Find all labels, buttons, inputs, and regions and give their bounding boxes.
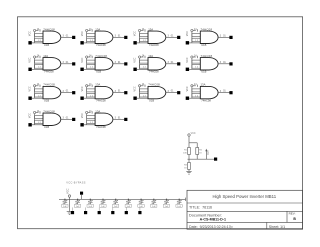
svg-text:74HC08: 74HC08 [149, 43, 159, 47]
svg-text:74HC08: 74HC08 [201, 98, 211, 102]
svg-text:74HC08: 74HC08 [149, 70, 159, 74]
svg-text:74HC08: 74HC08 [95, 54, 107, 58]
svg-text:1uF: 1uF [177, 206, 181, 208]
svg-text:U1B: U1B [96, 70, 101, 74]
svg-text:74HC08: 74HC08 [201, 54, 213, 58]
svg-text:10K: 10K [183, 152, 187, 154]
svg-text:1uF: 1uF [165, 206, 169, 208]
svg-text:74HC08: 74HC08 [96, 98, 106, 102]
svg-text:1uF: 1uF [152, 206, 156, 208]
svg-text:VCC: VCC [65, 188, 69, 194]
svg-text:VCC: VCC [186, 31, 189, 36]
svg-text:VCC: VCC [134, 57, 137, 62]
svg-text:VCC: VCC [81, 113, 84, 118]
svg-text:74HC08: 74HC08 [44, 70, 54, 74]
svg-text:1uF: 1uF [114, 206, 118, 208]
svg-text:U1B: U1B [201, 43, 206, 47]
svg-text:OUT: OUT [208, 149, 210, 154]
svg-text:13A: 13A [95, 83, 100, 87]
svg-text:A-CS-MB11-D-1: A-CS-MB11-D-1 [200, 218, 226, 222]
svg-text:1uF: 1uF [101, 206, 105, 208]
svg-text:74HC08: 74HC08 [43, 83, 55, 87]
svg-text:Sheet: 1/1: Sheet: 1/1 [269, 225, 285, 229]
svg-text:1uF: 1uF [63, 206, 67, 208]
svg-text:74HC08: 74HC08 [96, 43, 106, 47]
svg-text:74HC08: 74HC08 [43, 109, 55, 113]
svg-text:13A: 13A [95, 109, 100, 113]
svg-text:VCC: VCC [81, 57, 84, 62]
svg-text:1uF: 1uF [76, 206, 80, 208]
svg-text:13A: 13A [201, 83, 206, 87]
svg-text:74HC08: 74HC08 [96, 125, 106, 129]
svg-text:13A: 13A [148, 54, 153, 58]
svg-text:REV:: REV: [289, 212, 296, 216]
svg-text:VCC: VCC [186, 57, 189, 62]
svg-text:U1B: U1B [44, 125, 49, 129]
svg-text:VCC: VCC [29, 31, 32, 36]
svg-text:74HC08: 74HC08 [148, 83, 160, 87]
svg-text:U1B: U1B [149, 98, 154, 102]
svg-text:74HC08: 74HC08 [201, 27, 213, 31]
svg-text:13A: 13A [43, 54, 48, 58]
svg-text:VCC-BYPASS: VCC-BYPASS [66, 181, 85, 184]
svg-text:VCC: VCC [81, 31, 84, 36]
svg-text:U1B: U1B [44, 43, 49, 47]
svg-text:TITLE: 76116: TITLE: 76116 [189, 206, 212, 210]
svg-text:VCC: VCC [134, 31, 137, 36]
svg-text:1uF: 1uF [88, 206, 92, 208]
svg-text:13A: 13A [95, 27, 100, 31]
svg-text:VCC: VCC [81, 86, 84, 91]
svg-text:1uF: 1uF [127, 206, 131, 208]
svg-text:VCC: VCC [29, 113, 32, 118]
svg-text:74HC08: 74HC08 [43, 27, 55, 31]
svg-text:U1B: U1B [44, 98, 49, 102]
svg-text:VCC: VCC [134, 86, 137, 91]
svg-text:VCC: VCC [29, 57, 32, 62]
svg-text:VCC: VCC [186, 86, 189, 91]
svg-text:Date: 9/23/2013 02:24:17p: Date: 9/23/2013 02:24:17p [189, 225, 233, 229]
svg-text:VCC: VCC [29, 86, 32, 91]
svg-text:High Speed Power Inverter MB11: High Speed Power Inverter MB11 [212, 194, 276, 199]
svg-text:13A: 13A [148, 27, 153, 31]
svg-text:VCC: VCC [191, 132, 196, 135]
svg-text:U1B: U1B [201, 70, 206, 74]
